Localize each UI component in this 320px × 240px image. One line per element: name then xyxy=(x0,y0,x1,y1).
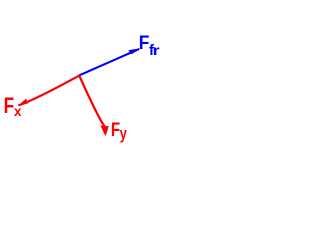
wire: red component shaft F_y xyxy=(79,76,104,127)
wire: red component shaft F_x xyxy=(18,76,79,106)
label F_x xyxy=(4,94,22,119)
svg-text:F: F xyxy=(111,118,120,140)
label F_fr xyxy=(139,31,160,59)
svg-text:x: x xyxy=(14,104,22,119)
arrowhead of F_x xyxy=(18,99,28,106)
wire: blue force vector shaft F_fr xyxy=(79,49,139,76)
svg-text:F: F xyxy=(4,94,14,119)
label F_y xyxy=(111,118,128,143)
arrowhead of F_y xyxy=(100,126,108,137)
arrowhead of F_fr xyxy=(128,49,139,55)
svg-text:y: y xyxy=(120,126,128,144)
svg-text:F: F xyxy=(139,31,150,53)
svg-text:r: r xyxy=(153,44,160,58)
